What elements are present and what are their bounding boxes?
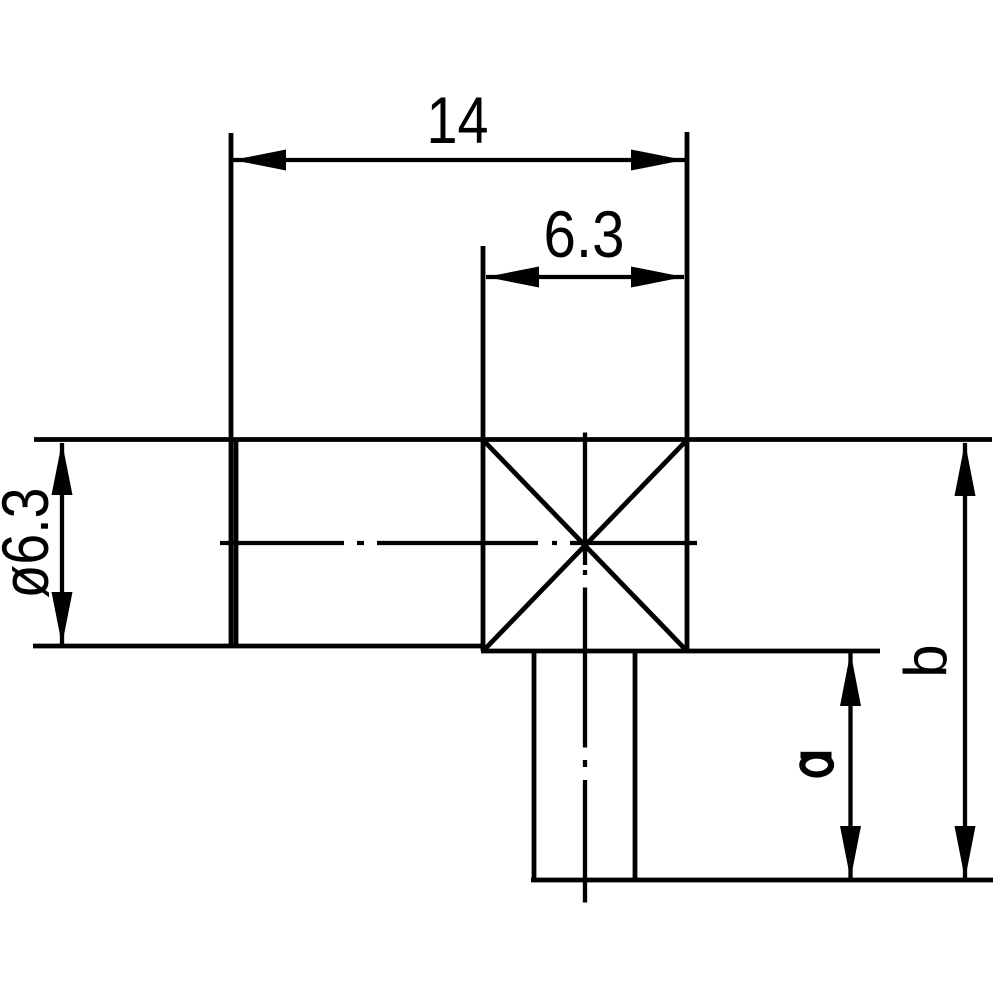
cylinder left edge second line: [234, 441, 239, 645]
horizontal centerline (dash-dot): [220, 541, 697, 545]
svg-text:6.3: 6.3: [544, 197, 625, 271]
stem right edge: [633, 651, 638, 880]
arrowhead ø6.3 top: [52, 442, 73, 495]
cylinder bottom outline / ø6.3 bottom extension: [33, 644, 483, 649]
stem left edge: [532, 651, 537, 880]
square flange bottom outline / a top extension: [481, 649, 880, 654]
svg-text:ø6.3: ø6.3: [0, 488, 62, 599]
arrowhead b bottom: [955, 826, 976, 880]
arrowhead 6.3 left: [486, 267, 539, 288]
svg-text:b: b: [892, 644, 959, 677]
stem bottom outline / a-b bottom extension: [531, 878, 993, 883]
dimension line b: [963, 443, 967, 878]
top outline / extension line (ø6.3 top, body top, b top): [34, 437, 992, 442]
dimension line 14: [233, 158, 685, 162]
arrowhead b top: [955, 442, 976, 496]
square right edge / 14 and 6.3 right extension line: [685, 132, 690, 651]
arrowhead ø6.3 bottom: [52, 592, 73, 645]
vertical centerline (dash-dot): [583, 433, 587, 903]
square left edge / 6.3 left extension line: [481, 246, 486, 651]
square diagonal top-left to bottom-right: [485, 442, 685, 649]
svg-text:14: 14: [427, 83, 489, 157]
dimension line 6.3: [486, 275, 684, 279]
cylinder left edge / 14 left extension line: [229, 133, 234, 646]
arrowhead a bottom: [840, 826, 861, 880]
arrowhead a top: [840, 652, 861, 706]
arrowhead 14 right: [631, 150, 684, 171]
dimension line ø6.3: [60, 443, 64, 644]
dimension line a: [848, 653, 852, 878]
dimension text a (rotated, single-storey CAD glyph drawn as shapes): [801, 752, 832, 775]
square diagonal top-right to bottom-left: [485, 442, 685, 649]
arrowhead 6.3 right: [631, 267, 684, 288]
arrowhead 14 left: [233, 150, 286, 171]
